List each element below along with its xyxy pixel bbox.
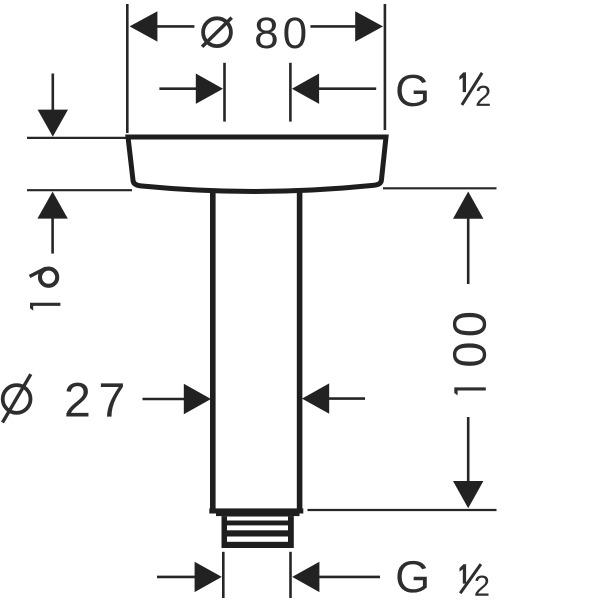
pipe left wall <box>210 191 216 509</box>
dim O27 digit 7 <box>101 383 123 416</box>
collar rim <box>216 514 300 517</box>
dim G12 top fraction digit 2 <box>477 86 490 106</box>
dim 100 arrow down <box>453 481 483 508</box>
dim G12 top fraction slash <box>462 73 482 105</box>
dim 100 extension line bottom <box>308 509 497 511</box>
thread stripe 1 <box>227 517 288 521</box>
dim 16 tail top <box>51 74 54 111</box>
dim G1/2 bottom arrow right <box>292 562 319 592</box>
dim G1/2 top tick right <box>289 63 292 122</box>
pipe right wall <box>297 191 303 509</box>
dim G12 top fraction digit 1 <box>459 72 466 92</box>
dim O80 digit 8 <box>256 17 277 48</box>
dim Ø27 line right <box>329 397 365 400</box>
dim Ø80 line left <box>157 25 195 28</box>
dim 100 line bottom <box>467 417 470 482</box>
dim 100 digit 0 rotated <box>453 313 486 335</box>
dim 16 tail bottom <box>51 218 54 254</box>
flange body <box>128 137 386 191</box>
dim G12 top letter G <box>397 75 426 107</box>
pipe bottom lip <box>209 508 303 513</box>
dim G1/2 top tick left <box>223 63 226 122</box>
dim 100 line top <box>467 218 470 284</box>
dim G1/2 top arrow left <box>196 74 223 104</box>
dim Ø27 diameter symbol <box>3 374 31 422</box>
dim 100 digit 0 rotated <box>453 343 486 365</box>
dim Ø80 diameter symbol <box>202 18 232 47</box>
dim Ø80 extension line left <box>126 4 129 133</box>
dim G1/2 bottom line left <box>157 576 197 579</box>
dim G1/2 bottom tick right <box>289 552 292 598</box>
dim 16 digit 1 rotated <box>30 303 60 311</box>
dim G12 bottom fraction slash <box>460 564 481 593</box>
dim Ø27 line left <box>143 398 187 401</box>
dim G12 bottom fraction digit 1 <box>460 564 467 583</box>
ceiling line upper <box>27 137 127 139</box>
dim 16 digit 6 rotated <box>30 268 58 286</box>
dim Ø80 extension line right <box>384 4 387 130</box>
ceiling line lower <box>27 189 132 191</box>
dim G1/2 bottom arrow left <box>195 562 222 592</box>
thread stripe 3 <box>227 537 288 542</box>
dim G1/2 bottom tick left <box>222 552 225 598</box>
dim 100 digit 1 rotated <box>454 387 486 395</box>
dim G12 bottom letter G <box>397 561 426 593</box>
dim G1/2 top line right <box>319 87 377 90</box>
dim O80 digit 0 <box>284 17 305 48</box>
thread block <box>222 516 294 548</box>
dim Ø27 arrow left <box>184 384 211 414</box>
thread stripe 2 <box>227 525 288 530</box>
dim 16 arrow down <box>38 110 68 137</box>
dim G1/2 top arrow right <box>292 74 319 104</box>
dim G1/2 top line left <box>159 87 197 90</box>
dim Ø80 arrow right <box>355 11 383 41</box>
dim 100 extension line top <box>383 187 497 189</box>
dim O27 digit 2 <box>66 383 88 417</box>
dim 100 arrow up <box>453 192 483 219</box>
dim Ø80 line right <box>310 25 355 28</box>
dim Ø27 arrow right <box>302 383 329 413</box>
dim G1/2 bottom line right <box>319 576 380 579</box>
dim Ø80 arrow left <box>130 11 158 41</box>
dim 16 arrow up <box>37 192 67 219</box>
